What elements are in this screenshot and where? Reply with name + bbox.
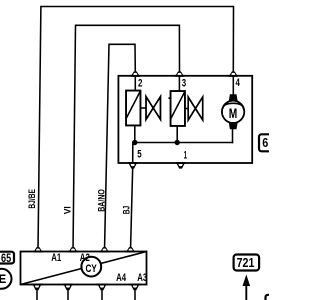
svg-text:6: 6	[262, 135, 268, 150]
terminal A1 label	[51, 252, 61, 264]
component code label bottom right corner	[266, 295, 284, 300]
label VI	[62, 206, 72, 214]
label BJ/BE	[27, 189, 37, 209]
motor M1 pump	[222, 76, 244, 143]
wire VI from A2 up over to pin 3	[73, 25, 180, 250]
bus wire to bottom rail	[134, 142, 233, 144]
component code label 721	[234, 255, 260, 271]
component code label 65	[0, 251, 14, 265]
label BJ	[122, 206, 132, 215]
pin 1 label	[184, 149, 187, 161]
junction dot solenoid 1 / pin 5	[132, 140, 137, 145]
pin 5 label	[137, 148, 141, 160]
svg-text:2: 2	[138, 77, 142, 89]
svg-text:A3: A3	[137, 272, 147, 284]
svg-text:A1: A1	[51, 252, 61, 264]
pin 2 connector bump	[131, 71, 141, 76]
terminal A1 top bump	[33, 247, 43, 252]
svg-text:65: 65	[1, 251, 11, 265]
pin 4 label	[236, 77, 240, 89]
pin 1 connector bump	[176, 162, 186, 169]
bottom terminal 3 bump and wire	[96, 284, 107, 300]
terminal A2 top bump	[68, 247, 78, 252]
solenoid valve 1 bowtie	[141, 97, 161, 120]
junction dot solenoid 2	[175, 140, 180, 145]
arrow to 721	[243, 275, 251, 300]
wire BA/NO from third terminal up over to pin 2	[105, 44, 136, 250]
ground module circle E	[0, 269, 12, 289]
solenoid valve 2 bowtie	[185, 97, 203, 120]
pin 5 connector bump	[128, 162, 138, 169]
pin 3 label	[182, 77, 186, 89]
bottom terminal 4 bump and wire	[129, 284, 140, 300]
pin 2 label	[138, 77, 142, 89]
wire BJ from pin 5 down to fourth terminal	[131, 167, 133, 251]
solenoid 2 bottom lead	[176, 126, 178, 143]
terminal 3 top bump	[100, 247, 110, 252]
bottom terminal 2 bump and wire	[62, 284, 73, 300]
svg-text:A2: A2	[80, 252, 90, 264]
connector CY box	[21, 252, 147, 285]
bottom terminal 1 bump and wire	[31, 284, 42, 300]
pin 4 connector bump	[229, 71, 239, 76]
svg-text:VI: VI	[62, 206, 72, 214]
svg-text:BJ/BE: BJ/BE	[27, 189, 37, 209]
svg-text:BA/NO: BA/NO	[96, 189, 106, 212]
svg-text:721: 721	[237, 255, 255, 270]
svg-text:A4: A4	[116, 272, 126, 284]
svg-text:3: 3	[182, 77, 186, 89]
label BA/NO	[96, 189, 106, 212]
terminal A2 label	[80, 252, 90, 264]
terminal 4 top bump	[126, 247, 136, 252]
ABS hydraulic unit box U1	[118, 76, 252, 163]
svg-text:E: E	[0, 272, 6, 286]
solenoid 1 bottom lead	[134, 126, 136, 143]
svg-text:BJ: BJ	[122, 206, 132, 215]
svg-text:4: 4	[236, 77, 240, 89]
terminal A4 label	[116, 272, 126, 284]
solenoid valve coil 1	[126, 76, 141, 126]
component code label 63	[259, 134, 273, 151]
solenoid 2 pilot nub	[168, 96, 171, 100]
terminal A3 label	[137, 272, 147, 284]
pin 3 connector bump	[175, 71, 185, 76]
connector CY circle	[81, 257, 101, 277]
svg-text:1: 1	[184, 149, 187, 161]
svg-text:M: M	[229, 105, 238, 121]
solenoid valve coil 2	[171, 76, 186, 126]
pin 5 wire through box bottom	[132, 143, 134, 164]
svg-text:5: 5	[137, 148, 141, 160]
wire BJ/BE from A1 up over to pin 4	[38, 7, 234, 251]
svg-text:CY: CY	[86, 263, 97, 275]
